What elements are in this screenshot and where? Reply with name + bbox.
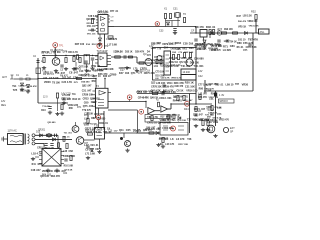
- Q1 internal: [55, 59, 59, 65]
- svg-text:T48: T48: [187, 138, 192, 141]
- labels power bottom: [40, 170, 66, 178]
- svg-text:VR1 .001: VR1 .001: [87, 33, 97, 35]
- svg-text:D78 1K: D78 1K: [215, 107, 223, 109]
- resistor R12b: [129, 56, 133, 58]
- labels out block: [160, 118, 199, 123]
- labels out block below: [159, 137, 192, 146]
- labels vol area: [192, 108, 214, 122]
- svg-text:L92 .01: L92 .01: [197, 48, 206, 51]
- filter junction dots: [195, 32, 219, 33]
- svg-text:CR17 33K: CR17 33K: [178, 144, 189, 146]
- svg-text:L75: L75: [133, 67, 138, 70]
- svg-text:VR20: VR20: [44, 80, 51, 84]
- mod box gnd stub: [99, 139, 101, 149]
- U1 right pins top: [108, 16, 110, 22]
- svg-text:C84 5.6K: C84 5.6K: [166, 91, 177, 94]
- resistor on y93: [153, 92, 158, 94]
- ground br a: [201, 128, 205, 132]
- wire after L1: [30, 78, 38, 80]
- svg-text:Q48 1K: Q48 1K: [150, 96, 159, 99]
- svg-text:L36 10K: L36 10K: [156, 82, 166, 85]
- svg-text:D50 4.7K: D50 4.7K: [213, 116, 222, 119]
- mic IC out wire lower: [108, 109, 138, 111]
- labels inside IF box bottom: [155, 76, 182, 80]
- svg-text:VR52 .047: VR52 .047: [136, 91, 148, 94]
- ground below y103 a: [48, 111, 52, 115]
- capacitor C49: [194, 114, 197, 116]
- svg-text:L6 470: L6 470: [176, 137, 185, 141]
- svg-text:CR78: CR78: [140, 66, 147, 70]
- TP5 inner dot: [98, 117, 100, 119]
- red annotation circle TP1: [53, 43, 58, 48]
- svg-text:1 4V: 1 4V: [219, 94, 224, 97]
- svg-text:CR72: CR72: [97, 68, 104, 72]
- IF block outline: [153, 48, 197, 81]
- res above out box a: [167, 115, 169, 120]
- svg-text:L85: L85: [151, 43, 156, 46]
- svg-text:TA7124P: TA7124P: [97, 49, 108, 53]
- svg-text:R48 33K: R48 33K: [104, 68, 114, 71]
- mic IC left pins: [92, 91, 95, 106]
- svg-text:10.240: 10.240: [183, 71, 191, 74]
- chain wire a: [111, 56, 137, 58]
- osc block box2: [181, 75, 196, 81]
- row3 drop to xbox: [43, 144, 45, 149]
- svg-text:C7 5.6K: C7 5.6K: [49, 76, 59, 80]
- labels left of TP2: [75, 43, 101, 46]
- capacitor on left bus: [37, 61, 40, 63]
- stub under C7r: [92, 61, 94, 67]
- svg-text:T46 .001: T46 .001: [181, 65, 191, 68]
- svg-text:Q87 10: Q87 10: [93, 75, 102, 78]
- svg-text:C18 10K: C18 10K: [84, 114, 93, 116]
- mic IC internals: [98, 100, 104, 106]
- ground chain a: [125, 66, 129, 70]
- labels mod cluster2: [84, 143, 101, 156]
- wire antenna in: [14, 78, 20, 80]
- ground spk: [213, 134, 217, 138]
- junction dots audio: [145, 101, 196, 105]
- U2 internal: [100, 56, 104, 60]
- svg-text:C31 .047: C31 .047: [82, 89, 92, 92]
- resistor R57: [211, 106, 213, 111]
- svg-text:VR5 1K: VR5 1K: [238, 25, 247, 28]
- ground below y103 b: [60, 112, 64, 116]
- transistor Q8: [125, 141, 131, 147]
- svg-text:D93 10K: D93 10K: [224, 29, 233, 31]
- op-amp A1: [148, 108, 155, 114]
- resistor R27: [177, 55, 179, 60]
- svg-text:R6 .01: R6 .01: [237, 47, 244, 49]
- svg-text:VR32 10: VR32 10: [43, 71, 53, 74]
- labels above chain: [115, 50, 151, 53]
- resistor R67: [149, 132, 154, 134]
- svg-text:Q96 33K: Q96 33K: [86, 19, 95, 21]
- res above out box b: [173, 114, 175, 119]
- svg-text:CR72: CR72: [91, 102, 98, 104]
- capacitor C25: [62, 98, 65, 100]
- svg-text:L58 2.2K: L58 2.2K: [243, 16, 253, 18]
- svg-text:CR63 33K: CR63 33K: [162, 128, 173, 130]
- TP6 inner dot: [140, 111, 142, 113]
- capacitor C66: [86, 146, 89, 148]
- svg-text:C54: C54: [164, 47, 169, 50]
- svg-text:C32 .047: C32 .047: [193, 114, 204, 117]
- labels above RF amp wire: [42, 51, 78, 54]
- ground Q7 area: [86, 156, 90, 160]
- TP4 inner dot: [129, 97, 131, 99]
- labels mod cluster: [85, 127, 112, 134]
- power wire a: [35, 134, 58, 136]
- svg-text:CR13 .001: CR13 .001: [159, 96, 172, 100]
- labels filter area: [197, 45, 218, 52]
- svg-text:C61 100: C61 100: [61, 98, 71, 101]
- svg-text:D90 470: D90 470: [238, 20, 247, 23]
- regulator X internals: [42, 149, 61, 167]
- svg-text:T16 .001: T16 .001: [193, 64, 204, 68]
- res right col upper: [63, 137, 65, 142]
- svg-text:VR9 4.7K: VR9 4.7K: [44, 147, 54, 150]
- transformer T2 box: [84, 55, 90, 65]
- wire y133 bottom: [136, 132, 149, 134]
- resistor R43: [183, 96, 185, 101]
- capacitor C54: [248, 44, 251, 46]
- svg-text:R98: R98: [199, 89, 204, 91]
- svg-text:C50 .047: C50 .047: [87, 25, 97, 28]
- labels top of right block: [151, 42, 219, 51]
- stub res to y103: [57, 98, 59, 103]
- resistor R52: [255, 15, 257, 20]
- junction dots rf amp: [43, 55, 93, 56]
- transformer inner marks: [10, 135, 22, 142]
- resistor R48: [222, 32, 227, 34]
- svg-text:VR37 10: VR37 10: [81, 75, 91, 78]
- svg-text:CR72 10: CR72 10: [147, 121, 157, 124]
- svg-text:T70 .01: T70 .01: [62, 137, 70, 139]
- svg-text:T25: T25: [13, 88, 18, 92]
- svg-text:R64 .001: R64 .001: [173, 99, 183, 102]
- resistor R45: [195, 107, 197, 112]
- opamp A1 out: [155, 110, 161, 112]
- svg-text:C37 4.7K: C37 4.7K: [208, 111, 218, 114]
- IF box internals: [166, 55, 170, 71]
- diode D18: [156, 132, 159, 135]
- svg-text:L71 5.6K: L71 5.6K: [85, 153, 95, 156]
- svg-text:C10: C10: [79, 71, 84, 73]
- labels filter top right: [218, 28, 234, 31]
- svg-text:R94 47K: R94 47K: [51, 175, 61, 178]
- ground below U1: [98, 42, 102, 46]
- svg-text:14V: 14V: [198, 70, 203, 73]
- red annotation circle TP2: [97, 43, 102, 48]
- transformer winding arcs: [28, 134, 30, 144]
- feedback box: [145, 115, 170, 123]
- svg-text:L54: L54: [84, 117, 89, 120]
- svg-text:Q76 10K: Q76 10K: [177, 120, 186, 122]
- svg-text:D64 680: D64 680: [81, 81, 90, 84]
- svg-text:C58 1K: C58 1K: [93, 131, 101, 134]
- svg-text:VR16 100: VR16 100: [186, 90, 198, 93]
- ground C25: [62, 101, 66, 105]
- capacitor C16: [124, 55, 126, 58]
- svg-text:VR12: VR12: [86, 23, 92, 25]
- transistor inside IF: [157, 56, 162, 61]
- elco cap CE1: [214, 93, 217, 97]
- svg-text:L8: L8: [170, 137, 174, 141]
- resistor left of U1: [91, 19, 93, 24]
- capacitor C51: [217, 40, 220, 42]
- svg-text:T54 1K: T54 1K: [229, 41, 237, 44]
- labels power right mid: [62, 132, 72, 138]
- xbox left gnd wire: [35, 156, 39, 158]
- diode below U1: [99, 38, 102, 41]
- Q7 wire right: [84, 139, 95, 141]
- TP8 inner dot: [172, 128, 174, 130]
- svg-text:C56 4.7K: C56 4.7K: [243, 42, 254, 45]
- labels audio right: [173, 96, 194, 103]
- svg-text:T87 47K: T87 47K: [248, 37, 258, 41]
- red annotation circle TP8: [171, 126, 176, 131]
- phone jack circle: [223, 127, 228, 132]
- svg-text:VR81: VR81: [151, 48, 157, 50]
- capacitor C52b: [226, 40, 229, 42]
- Q8 blob: [120, 137, 123, 140]
- wire det right: [256, 32, 259, 34]
- wire to audio opamp: [108, 101, 146, 103]
- Q8 internal: [126, 141, 129, 146]
- svg-text:Q90 680: Q90 680: [47, 122, 56, 124]
- capacitor C1: [20, 78, 22, 81]
- TP3 inner dot: [157, 23, 159, 25]
- svg-text:T70 680: T70 680: [97, 118, 106, 120]
- svg-text:C68: C68: [69, 151, 74, 153]
- svg-text:VR39 47K: VR39 47K: [163, 86, 174, 89]
- svg-text:T49 33K: T49 33K: [155, 91, 164, 94]
- labels below y103: [41, 105, 50, 112]
- mod out wire: [105, 132, 161, 134]
- diode D13: [245, 32, 248, 35]
- wire after C1: [23, 78, 27, 80]
- capacitor on y93: [162, 92, 164, 95]
- speaker label box: [219, 99, 235, 103]
- svg-text:SP: SP: [230, 131, 234, 134]
- ground under C7r: [90, 67, 94, 71]
- labels audio inner: [146, 114, 173, 130]
- svg-text:T31 .001: T31 .001: [64, 132, 73, 134]
- resistor R54: [207, 121, 209, 126]
- svg-text:R10 5.6K: R10 5.6K: [64, 165, 74, 167]
- audio out box: [160, 123, 188, 136]
- svg-text:L43 4.7K: L43 4.7K: [165, 143, 175, 146]
- labels left mid: [61, 94, 81, 101]
- wire filter row: [190, 32, 256, 34]
- svg-text:T86 .01: T86 .01: [103, 131, 112, 134]
- svg-text:C33: C33: [159, 30, 164, 33]
- stub under T2: [86, 64, 88, 68]
- transformer core lines: [24, 134, 26, 145]
- svg-text:C65: C65: [126, 128, 131, 132]
- feedback inner line: [145, 117, 170, 119]
- regulator left pins: [39, 152, 42, 164]
- svg-text:VR13 2.2K: VR13 2.2K: [249, 26, 260, 28]
- drop to xbox: [57, 135, 59, 148]
- svg-text:L17 5.6K: L17 5.6K: [107, 44, 117, 47]
- svg-text:ANL: ANL: [260, 31, 265, 34]
- svg-text:D26 47K: D26 47K: [135, 50, 145, 53]
- svg-text:CR44 47K: CR44 47K: [138, 96, 149, 99]
- capacitor below y103: [48, 107, 51, 109]
- svg-text:D40 5.6K: D40 5.6K: [168, 65, 178, 68]
- svg-text:T8 10K: T8 10K: [52, 81, 60, 84]
- svg-text:Q59 .01: Q59 .01: [91, 64, 101, 68]
- svg-text:R48 .01: R48 .01: [206, 25, 216, 29]
- svg-text:L19 33K: L19 33K: [163, 122, 172, 124]
- symbol inside U1 lower: [101, 29, 105, 32]
- svg-text:C48 .047: C48 .047: [31, 169, 42, 172]
- svg-text:CR15: CR15: [37, 148, 43, 150]
- svg-text:VR79 47K: VR79 47K: [162, 43, 173, 46]
- labels below U1: [107, 37, 118, 47]
- audio out wire: [171, 103, 212, 105]
- svg-text:D16: D16: [189, 43, 194, 46]
- wire below U1 b: [99, 34, 101, 38]
- capacitor right of T2: [91, 58, 94, 60]
- feedback left drop: [137, 110, 139, 133]
- svg-text:C75 10K: C75 10K: [155, 71, 164, 73]
- svg-text:R43 4.7K: R43 4.7K: [68, 51, 78, 54]
- red annotation circle TP4: [127, 95, 132, 100]
- resistor chain in box b: [160, 59, 162, 64]
- svg-text:D10 33K: D10 33K: [155, 76, 164, 78]
- capacitor below boxA: [162, 85, 165, 87]
- svg-text:Q75 .047: Q75 .047: [83, 104, 94, 108]
- part circle on y33: [217, 31, 221, 35]
- ground below Q8: [125, 149, 129, 153]
- svg-text:T65 47K: T65 47K: [195, 26, 204, 29]
- modulator box: [95, 128, 105, 140]
- capacitor C62: [64, 159, 67, 161]
- labels right of block: [211, 44, 235, 52]
- power wire c: [35, 143, 44, 145]
- svg-text:T79 470: T79 470: [82, 109, 91, 112]
- svg-text:117V AC: 117V AC: [8, 130, 18, 133]
- svg-text:R77 .01: R77 .01: [110, 11, 119, 13]
- mic box stub down b: [98, 120, 100, 128]
- ground br b: [206, 128, 210, 132]
- labels inside IF box top: [172, 52, 194, 54]
- wire lower left y103: [38, 102, 68, 104]
- wire x104 down: [103, 111, 105, 128]
- transistor Q7a: [72, 126, 79, 133]
- transistor Q7b: [76, 137, 84, 145]
- block bottom vert x205: [204, 80, 206, 93]
- svg-text:C8 .047: C8 .047: [69, 70, 79, 74]
- capacitor C45: [194, 39, 197, 41]
- svg-text:D22 .047: D22 .047: [62, 76, 72, 79]
- resistor R2: [65, 58, 67, 63]
- labels left col outside: [146, 55, 155, 62]
- resistor R53: [202, 121, 204, 126]
- stub x575 down: [57, 103, 59, 111]
- svg-text:L18 4.7K: L18 4.7K: [31, 151, 42, 155]
- ground Q1 area d: [72, 67, 76, 71]
- ground below boxA: [162, 90, 166, 94]
- svg-text:T74 470: T74 470: [42, 105, 50, 108]
- capacitor C57: [210, 113, 213, 115]
- svg-text:C98 470: C98 470: [175, 85, 184, 88]
- ground pwr b: [55, 169, 59, 173]
- resistor L1: [26, 78, 30, 80]
- resistor R61: [66, 144, 68, 149]
- opamp A2 out: [168, 108, 172, 110]
- svg-text:CR80: CR80: [110, 73, 117, 77]
- svg-text:L43 .047: L43 .047: [198, 92, 207, 95]
- svg-text:R60: R60: [92, 81, 97, 83]
- svg-text:L18: L18: [207, 121, 212, 124]
- svg-text:R89: R89: [91, 118, 96, 120]
- ground filter b: [202, 45, 206, 49]
- op-amp inside U1: [100, 17, 105, 21]
- diode D1: [21, 83, 24, 86]
- svg-text:VR29: VR29: [166, 114, 173, 118]
- svg-text:R71: R71: [223, 45, 228, 49]
- ground left of xbox: [31, 157, 35, 161]
- svg-text:VR60 10: VR60 10: [160, 119, 170, 122]
- labels mic amp area: [82, 97, 100, 113]
- diode D15: [40, 134, 43, 137]
- speaker cone: [210, 127, 213, 131]
- red annotation circle TP5: [96, 115, 100, 119]
- svg-text:R52 10K: R52 10K: [92, 44, 101, 46]
- resistor chain in box a: [156, 59, 158, 64]
- TP2 inner dot: [99, 45, 101, 47]
- svg-text:T28 5.6K: T28 5.6K: [88, 15, 98, 18]
- opamp input stub: [145, 102, 147, 109]
- ground under T2: [84, 69, 88, 73]
- svg-text:VR81 100: VR81 100: [209, 97, 219, 99]
- U1 left pins: [96, 17, 98, 32]
- svg-text:VR1: VR1: [182, 49, 187, 51]
- power transformer box: [8, 134, 24, 145]
- svg-text:C36 680: C36 680: [194, 56, 204, 60]
- svg-text:C24 4.7K: C24 4.7K: [62, 81, 73, 84]
- transformer pin circles: [32, 134, 35, 145]
- labels far right mid: [237, 37, 259, 49]
- svg-text:T57 680: T57 680: [52, 52, 61, 54]
- wire det down: [255, 20, 257, 33]
- vert from block: [195, 80, 197, 104]
- svg-text:C31: C31: [173, 8, 178, 11]
- svg-text:CR64: CR64: [175, 42, 182, 45]
- wire top right horiz: [204, 90, 253, 92]
- labels below mic box: [83, 112, 108, 126]
- svg-text:L88: L88: [224, 39, 229, 43]
- labels power cluster: [37, 147, 54, 150]
- filter transformer box: [200, 30, 207, 38]
- svg-text:CR4 1K: CR4 1K: [115, 50, 124, 53]
- osc drop c: [177, 18, 179, 27]
- resistor R22: [169, 14, 171, 19]
- labels antenna area: [12, 84, 37, 92]
- svg-text:C9 220: C9 220: [85, 148, 94, 151]
- labels lower block: [151, 81, 198, 93]
- svg-text:Q40 100: Q40 100: [40, 175, 49, 178]
- svg-text:VR89 100: VR89 100: [42, 170, 54, 173]
- svg-text:L78 5.6K: L78 5.6K: [64, 170, 73, 172]
- wire rf to mic box b: [104, 79, 106, 89]
- wire rf row: [38, 78, 96, 80]
- svg-text:VR30: VR30: [242, 83, 249, 87]
